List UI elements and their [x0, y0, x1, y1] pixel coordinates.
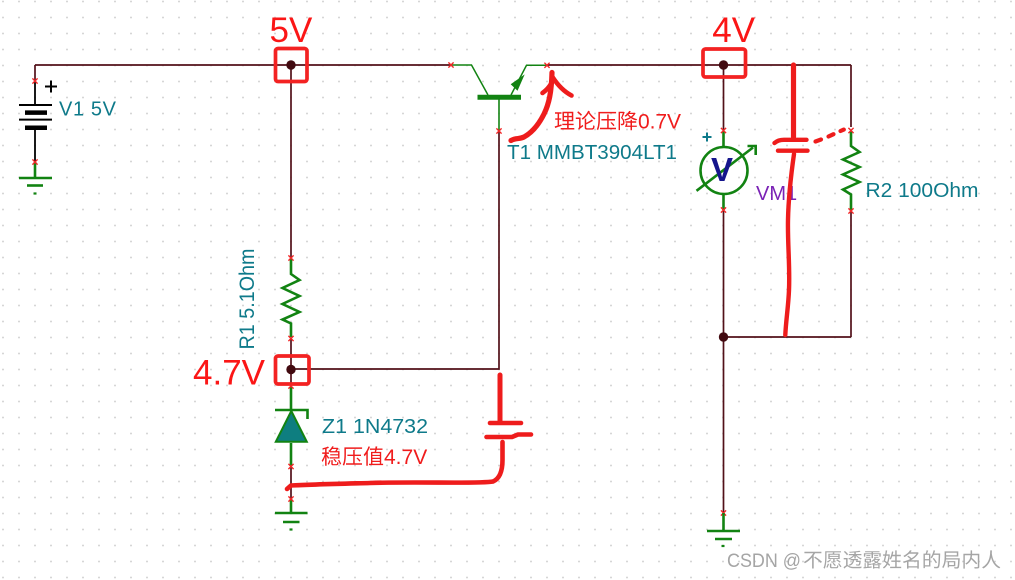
voltmeter VM1 — [697, 131, 756, 210]
voltmeter plus sign — [703, 133, 712, 142]
svg-text:4.7V: 4.7V — [193, 354, 266, 393]
annotation text 理论压降0.7V — [555, 111, 638, 130]
svg-text:4.7V: 4.7V — [384, 446, 427, 469]
wire zener to ground — [290, 466, 292, 499]
battery V1 — [19, 81, 57, 163]
zener diode Z1 — [275, 387, 308, 466]
svg-text:5V: 5V — [270, 11, 313, 50]
node 4V dot — [719, 60, 728, 69]
wire top bus right (emitter to 4V node to corner) — [547, 64, 851, 66]
resistor R1 — [283, 259, 300, 337]
wire bottom right horizontal — [723, 336, 851, 338]
wire 5V node down to R1 — [290, 65, 292, 258]
annotation text 稳压值4.7V — [322, 446, 383, 465]
wire R1 bottom through 4.7V node to zener — [290, 338, 292, 386]
wire 4V node down to voltmeter — [723, 65, 725, 130]
svg-text:R1 5.1Ohm: R1 5.1Ohm — [236, 249, 259, 350]
resistor R2 — [843, 131, 860, 210]
wire R2 bottom to corner — [850, 211, 852, 337]
svg-text:T1 MMBT3904LT1: T1 MMBT3904LT1 — [507, 142, 677, 164]
svg-text:Z1 1N4732: Z1 1N4732 — [322, 416, 428, 438]
wire junction to ground — [723, 337, 725, 513]
node 4.7V dot — [286, 365, 295, 374]
annotation red battery at R2 — [775, 65, 844, 335]
ground (right) — [707, 513, 740, 546]
wire top bus left (5V node to collector) — [35, 64, 451, 66]
svg-text:V: V — [711, 151, 733, 188]
annotation red arrow at transistor — [511, 73, 572, 141]
ground (zener) — [275, 499, 308, 530]
node 5V box — [276, 49, 308, 82]
node 5V dot — [286, 60, 295, 69]
ground (battery) — [19, 162, 52, 194]
node 4.7V box — [276, 356, 310, 384]
transistor Q1 (T1) — [451, 65, 547, 131]
svg-text:0.7V: 0.7V — [638, 111, 681, 134]
annotation red battery at base wire — [287, 375, 531, 489]
wire right drop to R2 — [850, 65, 852, 127]
node 4V box — [703, 49, 746, 77]
svg-text:R2 100Ohm: R2 100Ohm — [866, 180, 979, 202]
wire voltmeter bottom to junction — [723, 210, 725, 337]
wire battery top — [34, 65, 36, 81]
junction dot bottom right — [719, 332, 728, 341]
zener Z1 triangle — [276, 411, 307, 442]
svg-text:4V: 4V — [712, 11, 755, 50]
wire base of T1 to 4.7V node — [291, 131, 499, 369]
svg-text:V1 5V: V1 5V — [59, 99, 117, 121]
svg-text:CSDN @: CSDN @ — [727, 550, 801, 572]
pin x markers — [32, 62, 853, 515]
transistor T1 emitter arrow — [511, 74, 525, 90]
